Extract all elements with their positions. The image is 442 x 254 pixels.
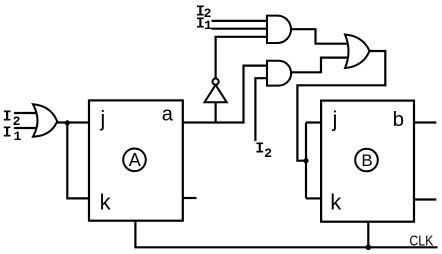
svg-text:B: B <box>361 151 372 170</box>
junction dot node j/k of A <box>65 120 70 125</box>
svg-text:I: I <box>3 109 12 126</box>
junction dot node CLK <box>366 245 372 251</box>
and-gate G3 <box>267 61 291 86</box>
wire I1 input to AND G2 <box>212 28 268 30</box>
svg-text:k: k <box>100 190 112 215</box>
svg-text:j: j <box>99 106 105 131</box>
svg-text:2: 2 <box>13 114 21 129</box>
svg-text:A: A <box>129 150 141 170</box>
wire j-k tie of B <box>305 123 307 199</box>
inverter U1 bubble <box>213 79 219 85</box>
svg-text:2: 2 <box>264 146 272 161</box>
wire OR G1 output to j of A <box>55 121 89 123</box>
svg-text:b: b <box>393 108 404 131</box>
flip-flop B circle <box>355 149 378 172</box>
wire OR G4 output feedback to j-k of B <box>297 51 385 161</box>
flip-flop B box <box>321 101 414 222</box>
wire I1 input to OR gate G1 <box>14 127 42 129</box>
junction dot node j/k of B <box>303 158 308 163</box>
svg-text:I: I <box>3 124 12 141</box>
wire inverter output to AND G2 third input <box>216 37 267 79</box>
flip-flop A box <box>89 100 183 220</box>
wire tie to k of B <box>306 197 321 199</box>
and-gate G2 <box>267 16 291 43</box>
or-gate G4 <box>345 35 370 69</box>
svg-text:CLK: CLK <box>409 232 433 249</box>
wire I2 input to OR gate G1 <box>14 112 42 114</box>
wire AND G3 output to OR G4 bottom input <box>290 58 350 73</box>
svg-text:k: k <box>330 189 342 214</box>
wire B clock drop <box>367 222 369 248</box>
or-gate G1 <box>33 104 57 136</box>
wire node to k of A <box>67 123 89 199</box>
wire k stub of A <box>183 197 197 199</box>
wire a line to inverter input <box>215 101 217 123</box>
flip-flop A circle <box>123 149 146 172</box>
svg-text:1: 1 <box>204 18 212 33</box>
wire a output of A to AND G3 top input <box>183 66 267 123</box>
wire CLK line <box>135 221 437 248</box>
wire tie to j of B <box>306 121 321 123</box>
wire k stub of B <box>414 198 436 200</box>
svg-text:1: 1 <box>14 129 22 144</box>
svg-text:a: a <box>162 104 174 126</box>
inverter U1 triangle <box>205 85 227 103</box>
wire I2 input to AND G3 second input <box>255 78 267 141</box>
wire I2 input to AND G2 <box>212 20 268 22</box>
wire b output stub of B <box>414 121 436 123</box>
svg-text:j: j <box>332 106 338 131</box>
wire AND G2 output to OR G4 top input <box>291 29 350 44</box>
svg-text:I: I <box>255 141 264 158</box>
